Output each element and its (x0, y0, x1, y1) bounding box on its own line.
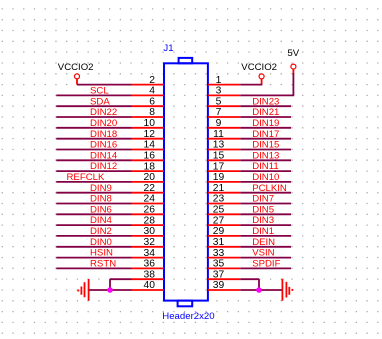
svg-text:DIN17: DIN17 (252, 129, 279, 140)
pin 4 stub (132, 94, 165, 96)
svg-text:DIN11: DIN11 (252, 161, 278, 172)
svg-text:DIN8: DIN8 (90, 194, 112, 205)
pin 40 stub (132, 289, 165, 291)
svg-text:DIN10: DIN10 (252, 172, 279, 183)
wire net DIN17 (pin 11) (240, 138, 291, 140)
pin 14 stub (132, 149, 165, 151)
svg-text:PCLKIN: PCLKIN (252, 183, 287, 194)
svg-text:2: 2 (149, 75, 155, 86)
pin 22 stub (132, 192, 165, 194)
svg-text:DIN3: DIN3 (252, 215, 274, 226)
wire net DIN16 (pin 14) (56, 149, 131, 151)
wire net DIN12 (pin 18) (56, 170, 131, 172)
svg-text:14: 14 (144, 140, 156, 151)
svg-text:4: 4 (149, 86, 155, 97)
pin 18 stub (132, 170, 165, 172)
svg-text:DIN16: DIN16 (90, 140, 117, 151)
svg-text:29: 29 (213, 226, 225, 237)
svg-text:18: 18 (144, 161, 156, 172)
svg-text:DIN15: DIN15 (252, 140, 279, 151)
svg-text:12: 12 (144, 129, 156, 140)
wire net DIN7 (pin 23) (240, 203, 291, 205)
pin 15 stub (208, 159, 240, 161)
pin 35 stub (208, 267, 240, 269)
svg-text:DIN22: DIN22 (90, 107, 117, 118)
svg-text:25: 25 (213, 205, 225, 216)
pin 16 stub (132, 159, 165, 161)
wire VCCIO2 to pin 1 (240, 84, 262, 86)
header J1 body (164, 58, 208, 306)
pin 7 stub (208, 116, 240, 118)
svg-text:J1: J1 (163, 43, 173, 54)
svg-text:VCCIO2: VCCIO2 (241, 62, 277, 73)
pin 21 stub (208, 192, 240, 194)
svg-text:23: 23 (213, 194, 225, 205)
wire net DIN3 (pin 27) (240, 224, 291, 226)
svg-text:27: 27 (213, 215, 225, 226)
svg-text:DIN19: DIN19 (252, 118, 279, 129)
svg-text:37: 37 (213, 269, 225, 280)
wire net DIN0 (pin 32) (56, 246, 131, 248)
wire net DIN22 (pin 8) (56, 116, 131, 118)
pin 30 stub (132, 235, 165, 237)
wire net VSIN (pin 33) (240, 257, 291, 259)
pin 5 stub (208, 105, 240, 107)
svg-text:8: 8 (149, 107, 155, 118)
pin 31 stub (208, 246, 240, 248)
svg-text:SDA: SDA (90, 96, 110, 107)
svg-text:SCL: SCL (90, 86, 109, 97)
svg-text:DIN7: DIN7 (252, 194, 274, 205)
wire net DIN8 (pin 24) (56, 203, 131, 205)
svg-text:33: 33 (213, 248, 225, 259)
svg-text:DIN5: DIN5 (252, 204, 274, 215)
wire net SDA (pin 6) (56, 105, 131, 107)
wire net RSTN (pin 36) (56, 267, 131, 269)
wire net DIN5 (pin 25) (240, 213, 291, 215)
wire pin 38 to junction (110, 278, 132, 280)
svg-text:REFCLK: REFCLK (67, 172, 105, 183)
svg-text:24: 24 (144, 194, 156, 205)
wire net DIN2 (pin 30) (56, 235, 131, 237)
pin 11 stub (208, 138, 240, 140)
svg-text:16: 16 (144, 151, 156, 162)
pin 6 stub (132, 105, 165, 107)
svg-text:DIN9: DIN9 (90, 183, 112, 194)
wire net DIN20 (pin 10) (56, 127, 131, 129)
wire net DIN4 (pin 28) (56, 224, 131, 226)
pin 1 stub (208, 84, 240, 86)
svg-text:28: 28 (144, 215, 156, 226)
svg-text:15: 15 (213, 151, 225, 162)
ground symbol left (78, 279, 88, 301)
svg-text:22: 22 (144, 183, 156, 194)
svg-text:DIN2: DIN2 (90, 226, 112, 237)
svg-text:DIN23: DIN23 (252, 96, 279, 107)
wire net DIN18 (pin 12) (56, 138, 131, 140)
svg-text:HSIN: HSIN (90, 248, 113, 259)
pin 24 stub (132, 203, 165, 205)
pin 37 stub (208, 278, 240, 280)
wire net DIN11 (pin 17) (240, 170, 291, 172)
svg-text:32: 32 (144, 237, 156, 248)
pin 10 stub (132, 127, 165, 129)
wire pin 39 / ground net (240, 289, 282, 291)
pin 23 stub (208, 203, 240, 205)
svg-text:10: 10 (144, 118, 156, 129)
svg-text:DIN6: DIN6 (90, 204, 112, 215)
pin 20 stub (132, 181, 165, 183)
wire net DIN19 (pin 9) (240, 127, 291, 129)
pin 8 stub (132, 116, 165, 118)
wire pin 40 / ground net (89, 289, 132, 291)
svg-text:5V: 5V (287, 48, 299, 59)
wire net PCLKIN (pin 21) (240, 192, 291, 194)
junction dot left (107, 287, 113, 293)
svg-text:40: 40 (144, 280, 156, 291)
pin 39 stub (208, 289, 240, 291)
svg-text:3: 3 (216, 86, 222, 97)
pin 27 stub (208, 224, 240, 226)
svg-text:1: 1 (216, 75, 222, 86)
svg-text:6: 6 (149, 96, 155, 107)
svg-text:26: 26 (144, 205, 156, 216)
wire net SCL (pin 4) (56, 94, 131, 96)
svg-text:SPDIF: SPDIF (252, 259, 280, 270)
svg-text:VSIN: VSIN (252, 248, 274, 259)
wire net DIN1 (pin 29) (240, 235, 291, 237)
pin 19 stub (208, 181, 240, 183)
svg-text:DIN12: DIN12 (90, 161, 117, 172)
svg-text:DIN21: DIN21 (252, 107, 279, 118)
wire net DIN13 (pin 15) (240, 159, 291, 161)
svg-text:13: 13 (213, 140, 225, 151)
wire pin 37 to junction (240, 278, 259, 280)
pin 25 stub (208, 213, 240, 215)
pin 13 stub (208, 149, 240, 151)
junction dot right (256, 287, 262, 293)
wire net SPDIF (pin 35) (240, 267, 291, 269)
pin 26 stub (132, 213, 165, 215)
svg-text:36: 36 (144, 259, 156, 270)
svg-text:Header2x20: Header2x20 (162, 311, 214, 322)
svg-text:DIN14: DIN14 (90, 150, 118, 161)
svg-text:19: 19 (213, 172, 225, 183)
wire net REFCLK (pin 20) (56, 181, 131, 183)
wire net DIN14 (pin 16) (56, 159, 131, 161)
pin 3 stub (208, 94, 240, 96)
wire 5V to pin 3 (292, 73, 294, 95)
svg-text:DEIN: DEIN (252, 237, 275, 248)
svg-text:21: 21 (213, 183, 225, 194)
wire net HSIN (pin 34) (56, 257, 131, 259)
svg-text:17: 17 (213, 161, 225, 172)
svg-text:31: 31 (213, 237, 225, 248)
svg-text:DIN4: DIN4 (90, 215, 113, 226)
pin 29 stub (208, 235, 240, 237)
svg-text:7: 7 (216, 107, 222, 118)
pin 17 stub (208, 170, 240, 172)
svg-text:DIN13: DIN13 (252, 150, 279, 161)
pin 2 stub (132, 84, 165, 86)
svg-text:DIN18: DIN18 (90, 129, 117, 140)
wire VCCIO2 to pin 2 (77, 84, 132, 86)
wire net DIN23 (pin 5) (240, 105, 291, 107)
pin 36 stub (132, 267, 165, 269)
pin 28 stub (132, 224, 165, 226)
svg-text:DIN0: DIN0 (90, 237, 112, 248)
svg-text:9: 9 (216, 118, 222, 129)
wire net DIN15 (pin 13) (240, 149, 291, 151)
pin 32 stub (132, 246, 165, 248)
pin 33 stub (208, 257, 240, 259)
svg-text:RSTN: RSTN (90, 259, 116, 270)
svg-text:38: 38 (144, 269, 156, 280)
svg-text:39: 39 (213, 280, 225, 291)
svg-text:11: 11 (213, 129, 224, 140)
svg-text:5: 5 (216, 96, 222, 107)
ground symbol right (282, 279, 292, 301)
pin 38 stub (132, 278, 165, 280)
svg-text:20: 20 (144, 172, 156, 183)
svg-text:35: 35 (213, 259, 225, 270)
wire net DIN6 (pin 26) (56, 213, 131, 215)
pin 34 stub (132, 257, 165, 259)
wire net DIN9 (pin 22) (56, 192, 131, 194)
wire net DIN21 (pin 7) (240, 116, 291, 118)
svg-text:DIN1: DIN1 (252, 226, 274, 237)
pin 9 stub (208, 127, 240, 129)
svg-text:30: 30 (144, 226, 156, 237)
svg-text:VCCIO2: VCCIO2 (58, 62, 94, 73)
svg-text:DIN20: DIN20 (90, 118, 117, 129)
pin 12 stub (132, 138, 165, 140)
svg-text:34: 34 (144, 248, 156, 259)
wire net DIN10 (pin 19) (240, 181, 291, 183)
wire net DEIN (pin 31) (240, 246, 291, 248)
